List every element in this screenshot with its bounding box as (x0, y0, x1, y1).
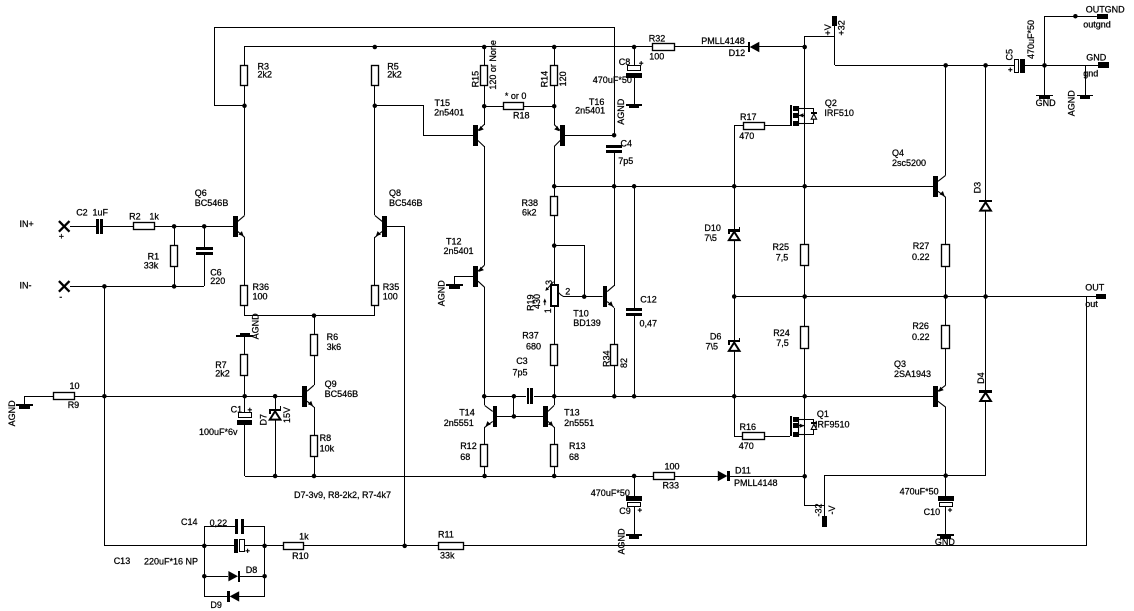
wire -V jog (805, 476, 825, 505)
svg-text:IRF9510: IRF9510 (815, 419, 850, 429)
wire bootstrap net from R3 node to C4/T16 base node (215, 28, 615, 106)
transistor Q8 (382, 216, 387, 237)
node tail (312, 313, 317, 318)
svg-text:D3: D3 (973, 182, 983, 194)
wire Q8 collector (374, 106, 376, 215)
ground AGND above R7 (inverted) (240, 333, 250, 335)
wire T13 collector (554, 396, 556, 405)
capacitor C1 (244, 396, 246, 412)
svg-text:D9: D9 (210, 600, 222, 610)
capacitor C3 (527, 388, 529, 404)
terminal IN- (59, 281, 70, 292)
wire bias tap jog to T10 base (554, 246, 584, 297)
svg-text:BD139: BD139 (573, 318, 601, 328)
node D10/D6 mid (732, 294, 737, 299)
resistor R14 (554, 47, 556, 66)
wire lower rail left (245, 476, 653, 478)
svg-text:D10: D10 (704, 223, 721, 233)
wire bias row y396 (R9 to Q9 base) (24, 396, 53, 398)
zener D7 (275, 396, 277, 409)
terminal GND (1098, 62, 1109, 68)
node C3 base tap (512, 394, 517, 399)
node C6 top junction (202, 224, 207, 229)
node R24 bottom / Q1 source (802, 394, 807, 399)
wire C13 row (204, 545, 234, 547)
wire R5 node to T15 base (375, 106, 474, 136)
svg-text:IRF510: IRF510 (824, 108, 854, 118)
svg-text:PMLL4148: PMLL4148 (701, 36, 745, 46)
wire R19 bottom to R37 (554, 306, 556, 345)
zener D6 (734, 296, 736, 340)
node IN- to feedback divider (102, 284, 107, 289)
node C9 top (632, 474, 637, 479)
resistor R17 (735, 126, 744, 187)
svg-text:68: 68 (460, 452, 470, 462)
ground GND below C5 (1044, 65, 1046, 95)
svg-text:C4: C4 (621, 138, 633, 148)
capacitor C14 branch (205, 527, 236, 546)
svg-text:outgnd: outgnd (1083, 20, 1111, 30)
wire x614 from top net crossing +rail down to T16 base node (614, 47, 616, 135)
svg-text:Q8: Q8 (389, 188, 401, 198)
wire Q4 collector (945, 65, 947, 175)
svg-text:33k: 33k (144, 260, 159, 270)
svg-text:R26: R26 (912, 321, 929, 331)
svg-text:D8: D8 (246, 565, 258, 575)
svg-text:-V: -V (827, 506, 837, 515)
wire Q6 collector (244, 106, 246, 215)
svg-text:220: 220 (210, 276, 225, 286)
node D7 top (273, 394, 278, 399)
diode D8 branch (204, 546, 206, 596)
node Q4 collector feed (943, 63, 948, 68)
zener D10 (734, 186, 736, 229)
diode D11 (718, 471, 728, 481)
wire T15 emitter up to R15 (484, 106, 486, 125)
svg-text:AGND: AGND (7, 400, 17, 427)
wire R17 to Q2 gate (764, 125, 790, 127)
wire C2 to R2 (103, 226, 134, 228)
svg-text:BC546B: BC546B (325, 389, 359, 399)
svg-text:R15: R15 (470, 71, 480, 88)
svg-text:D11: D11 (735, 465, 751, 475)
resistor R37 (551, 345, 558, 366)
svg-text:7,5: 7,5 (776, 252, 789, 262)
node C8 top (632, 45, 637, 50)
resistor R13 (551, 445, 558, 467)
ground AGND below gnd terminal (1085, 65, 1087, 95)
wire R33 to D11 (674, 476, 718, 478)
svg-text:GND: GND (1086, 53, 1107, 63)
svg-text:R6: R6 (327, 332, 339, 342)
svg-text:R27: R27 (913, 241, 930, 251)
node D8 left (202, 574, 207, 579)
wire lower rail right (824, 475, 986, 477)
node C-network right (262, 544, 267, 549)
node R12 bottom (482, 474, 487, 479)
resistor R5 (372, 66, 379, 86)
svg-text:IN+: IN+ (20, 219, 34, 229)
svg-text:Q4: Q4 (892, 148, 904, 158)
transistor Q9 (314, 356, 316, 385)
wire OUT rail y296 (734, 296, 1096, 298)
capacitor C13 (234, 539, 238, 553)
svg-text:C12: C12 (640, 295, 657, 305)
svg-text:2k2: 2k2 (258, 70, 273, 80)
ground AGND at T12 base (446, 284, 463, 286)
wire Q2 drain up (804, 47, 806, 109)
resistor R15 (484, 47, 486, 66)
node outgnd (1073, 14, 1078, 19)
node C-network left (202, 544, 207, 549)
wire T14 collector (484, 396, 486, 405)
svg-text:GND: GND (935, 537, 956, 547)
svg-text:R35: R35 (383, 282, 400, 292)
capacitor C12 (634, 186, 636, 308)
capacitor C8 (634, 47, 636, 66)
svg-text:Q2: Q2 (825, 98, 837, 108)
resistor R2 (134, 223, 155, 230)
node C12 bottom (632, 394, 637, 399)
wire D11 to -V node (730, 476, 805, 478)
svg-text:Q1: Q1 (817, 409, 829, 419)
trimmer R19 (551, 285, 558, 306)
node +V feed (802, 45, 807, 50)
resistor R7 (244, 337, 246, 354)
node R14 top (552, 45, 557, 50)
svg-text:R17: R17 (740, 112, 757, 122)
resistor R16 (735, 396, 743, 436)
node R27/R26 mid (943, 294, 948, 299)
svg-text:T12: T12 (446, 236, 462, 246)
resistor R38 (554, 186, 556, 196)
svg-text:7,5: 7,5 (776, 338, 789, 348)
svg-text:82: 82 (619, 358, 629, 368)
node D8 right (262, 574, 267, 579)
node R5 bottom / Q8 collector (373, 104, 378, 109)
ground AGND below C8 (634, 78, 636, 104)
svg-text:R13: R13 (569, 441, 586, 451)
svg-text:C8: C8 (619, 57, 631, 67)
svg-text:2n5551: 2n5551 (444, 418, 474, 428)
svg-text:+: + (59, 232, 64, 242)
svg-text:BC546B: BC546B (195, 198, 229, 208)
svg-text:AGND: AGND (616, 98, 626, 125)
node D3 top (983, 63, 988, 68)
node T14 collector (482, 394, 487, 399)
svg-text:C1: C1 (231, 405, 243, 415)
wire T14 emitter to R12 (484, 427, 486, 444)
node R25/R24 mid (802, 294, 807, 299)
wire T16 emitter up to R14 (554, 106, 556, 125)
svg-text:T13: T13 (564, 408, 580, 418)
node R34 bottom (612, 394, 617, 399)
transistor T13 npn (543, 406, 548, 427)
wire +V rail y65 (835, 65, 1015, 67)
svg-text:7\5: 7\5 (704, 233, 717, 243)
terminal OUT (1096, 294, 1106, 299)
resistor R34 (611, 345, 618, 366)
wire T12 base to AGND (455, 277, 474, 285)
node R18 right (552, 104, 557, 109)
svg-text:R33: R33 (663, 480, 680, 490)
capacitor C4 (606, 145, 622, 148)
wire drive rail y186 (554, 186, 933, 188)
svg-text:10: 10 (70, 381, 80, 391)
svg-text:100: 100 (649, 52, 664, 62)
svg-text:1k: 1k (149, 212, 159, 222)
diode D4 (985, 296, 987, 390)
svg-text:R14: R14 (539, 71, 549, 88)
terminal +V (832, 16, 837, 26)
node Q3 collector / C10 (943, 473, 948, 478)
wire T12 collector down (484, 287, 486, 396)
svg-text:R18: R18 (513, 110, 530, 120)
transistor T15 pnp (473, 125, 478, 146)
capacitor C5 (1015, 60, 1019, 73)
node T13 collector / R37 bottom (552, 394, 557, 399)
wire R32 to D12 (674, 46, 748, 48)
node feedback junction (402, 544, 407, 549)
svg-text:2sc5200: 2sc5200 (892, 158, 926, 168)
svg-text:C13: C13 (114, 556, 131, 566)
svg-text:C10: C10 (924, 507, 941, 517)
node Q2 source / R25 top (802, 184, 807, 189)
ground AGND at R9 (24, 396, 26, 404)
svg-text:D12: D12 (729, 48, 746, 58)
svg-text:2n5401: 2n5401 (434, 108, 464, 118)
svg-text:R10: R10 (292, 551, 309, 561)
resistor R11 (405, 545, 439, 547)
terminal OUTGND (1097, 14, 1108, 19)
svg-text:AGND: AGND (616, 528, 626, 555)
resistor R12 (481, 445, 488, 467)
svg-text:7p5: 7p5 (618, 156, 633, 166)
svg-text:470uF*50: 470uF*50 (1026, 20, 1036, 59)
wire feedback drop (464, 297, 1087, 546)
node R1 top (172, 224, 177, 229)
svg-text:+V: +V (823, 24, 833, 35)
svg-text:C5: C5 (1005, 49, 1015, 61)
svg-text:C3: C3 (516, 356, 528, 366)
mosfet Q2 IRF510 (790, 105, 792, 126)
resistor R3 (244, 47, 246, 66)
svg-text:-: - (59, 292, 62, 302)
node R8 bottom (312, 474, 317, 479)
node C12 top (632, 184, 637, 189)
capacitor C2 (96, 219, 99, 234)
wire T16 base to C4 node (565, 135, 614, 137)
svg-text:120 or None: 120 or None (488, 40, 498, 90)
svg-text:680: 680 (526, 342, 541, 352)
node feedback divider tap (102, 394, 107, 399)
node R1 bottom (172, 284, 177, 289)
wire D12 to +V node (759, 46, 805, 48)
svg-text:3k6: 3k6 (327, 342, 342, 352)
node D6 chain bottom (732, 394, 737, 399)
svg-text:D4: D4 (976, 372, 986, 384)
svg-text:D7: D7 (259, 414, 269, 426)
svg-text:1: 1 (543, 308, 553, 313)
wire Q8 emitter to R35 (374, 237, 376, 285)
wire R38 to trimmer (554, 215, 556, 285)
svg-text:3: 3 (544, 280, 554, 285)
svg-text:100: 100 (665, 461, 680, 471)
capacitor C10 (945, 476, 947, 496)
svg-text:0,22: 0,22 (210, 518, 228, 528)
svg-text:100uF*6v: 100uF*6v (199, 427, 238, 437)
wire -V terminal stem (824, 506, 826, 516)
node R5 top (373, 45, 378, 50)
ground GND below C10 (945, 506, 947, 534)
transistor Q3 2SA1943 pnp (945, 348, 947, 385)
wire R19 wiper to T10 base (558, 292, 603, 297)
svg-text:PMLL4148: PMLL4148 (734, 478, 778, 488)
resistor R27 (942, 245, 950, 267)
node R18 left (482, 104, 487, 109)
resistor R36 (241, 286, 248, 306)
wire Q1 source down (804, 434, 806, 476)
node -V feed (802, 474, 807, 479)
wire up to OUTGND (1045, 17, 1097, 66)
node bias tap R38/R19 (552, 243, 557, 248)
resistor R26 (945, 296, 947, 325)
svg-text:2n5551: 2n5551 (564, 418, 594, 428)
wire Q4 emitter to R27 (945, 197, 947, 244)
svg-text:6k2: 6k2 (522, 208, 537, 218)
wire R2 to Q6 base (155, 226, 233, 228)
wire -V riser (824, 476, 826, 506)
wire Q8 base to feedback node (387, 227, 405, 546)
diode D3 (985, 65, 987, 200)
svg-text:2k2: 2k2 (387, 70, 402, 80)
svg-text:0.22: 0.22 (912, 332, 930, 342)
wire C5 to GND terminal (1025, 65, 1098, 67)
resistor R35 (372, 286, 379, 306)
node D7 bottom (273, 474, 278, 479)
transistor Q6 (233, 216, 238, 237)
svg-text:0.22: 0.22 (912, 252, 930, 262)
svg-text:470: 470 (739, 131, 754, 141)
svg-text:100: 100 (253, 292, 268, 302)
svg-text:Q3: Q3 (894, 359, 906, 369)
node GND star (1042, 63, 1047, 68)
svg-text:2: 2 (565, 287, 570, 297)
mosfet Q1 IRF9510 (790, 416, 792, 436)
capacitor C6 (204, 226, 206, 247)
svg-text:R8: R8 (320, 433, 332, 443)
wire T15 collector down to T12 (484, 146, 486, 265)
transistor Q4 2sc5200 (933, 176, 938, 197)
node C4 bottom / T10 collector (612, 184, 617, 189)
terminal IN+ (59, 221, 70, 232)
terminal -V (822, 516, 827, 527)
svg-text:C9: C9 (619, 506, 631, 516)
svg-text:R9: R9 (68, 400, 80, 410)
node base link (512, 414, 517, 419)
resistor R10 (265, 545, 284, 547)
svg-text:R25: R25 (773, 242, 790, 252)
node D3/D4 mid (983, 294, 988, 299)
svg-text:R34: R34 (601, 350, 611, 367)
svg-text:15V: 15V (282, 407, 292, 423)
wire T13 emitter to R13 (554, 427, 556, 444)
svg-text:470: 470 (739, 441, 754, 451)
ground AGND below C9 (634, 507, 636, 534)
wire T10 emitter to R34 (614, 308, 616, 345)
node R3 bottom / Q6 collector (242, 104, 247, 109)
svg-text:470uF*50: 470uF*50 (591, 488, 630, 498)
svg-text:470uF*50: 470uF*50 (593, 75, 632, 85)
node T10 base (582, 294, 587, 299)
svg-text:* or 0: * or 0 (505, 91, 527, 101)
wire R16 to Q1 gate (765, 436, 790, 438)
svg-text:IN-: IN- (20, 281, 32, 291)
svg-text:0,47: 0,47 (640, 319, 658, 329)
wire Q9 emitter to R8 (314, 407, 316, 435)
resistor R6 (314, 316, 316, 335)
svg-text:33k: 33k (440, 550, 455, 560)
svg-text:T14: T14 (459, 408, 475, 418)
svg-text:1uF: 1uF (93, 207, 109, 217)
wire Q3 collector down (945, 407, 947, 476)
svg-text:Q9: Q9 (325, 379, 337, 389)
svg-text:OUT: OUT (1085, 283, 1105, 293)
svg-text:100: 100 (383, 292, 398, 302)
wire Q6 emitter to R36 (244, 237, 246, 285)
svg-text:R36: R36 (253, 282, 270, 292)
svg-text:GND: GND (1036, 98, 1057, 108)
node T16 collector / R38 top (552, 184, 557, 189)
svg-text:AGND: AGND (436, 280, 446, 307)
svg-text:C14: C14 (181, 517, 198, 527)
svg-text:D6: D6 (710, 332, 722, 342)
node C1 top (242, 394, 247, 399)
svg-text:10k: 10k (320, 444, 335, 454)
capacitor C9 (634, 476, 636, 496)
resistor R32 (653, 44, 675, 51)
wire Q1 drain up (804, 396, 806, 419)
resistor R9 (54, 393, 75, 400)
svg-text:120: 120 (558, 71, 568, 86)
wire +feed rail y47 segment R3-top to R32 (244, 46, 653, 48)
node R15 top (482, 45, 487, 50)
transistor T12 pnp (473, 266, 478, 287)
svg-text:AGND: AGND (1067, 90, 1077, 117)
svg-text:2k2: 2k2 (215, 368, 230, 378)
resistor R25 (801, 245, 809, 266)
svg-text:R16: R16 (740, 422, 757, 432)
wire Q2 source down (804, 124, 806, 186)
svg-text:1k: 1k (299, 532, 309, 542)
svg-text:7\5: 7\5 (706, 341, 719, 351)
svg-text:R32: R32 (649, 34, 666, 44)
svg-text:R24: R24 (773, 328, 790, 338)
svg-text:+32: +32 (837, 20, 847, 35)
wire IN+ to C2 (70, 226, 96, 228)
svg-text:BC546B: BC546B (389, 198, 423, 208)
resistor R18 (484, 106, 504, 108)
resistor R33 (654, 473, 675, 480)
svg-text:2n5401: 2n5401 (444, 246, 474, 256)
svg-text:-32: -32 (814, 503, 824, 516)
svg-text:D7-3v9, R8-2k2, R7-4k7: D7-3v9, R8-2k2, R7-4k7 (294, 490, 391, 500)
wire lower drive rail y396 (484, 396, 526, 398)
resistor R24 (804, 296, 806, 326)
svg-text:out: out (1085, 299, 1098, 309)
svg-text:7p5: 7p5 (513, 367, 528, 377)
diode D12 (748, 42, 750, 52)
